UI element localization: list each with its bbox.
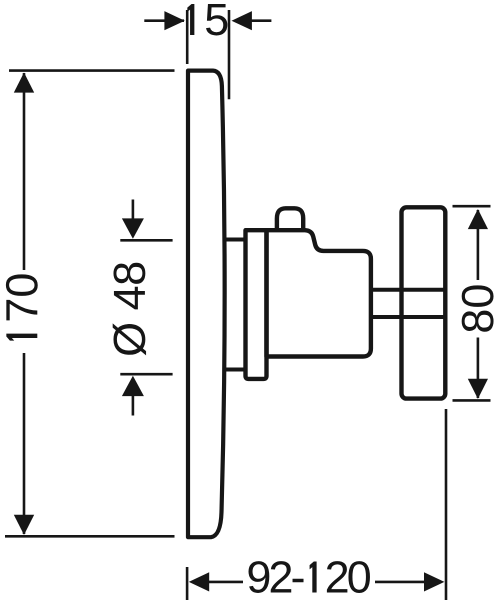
dim d48: upper arrow line [132, 200, 135, 222]
dim 170: top extension line [9, 69, 175, 72]
lower connector sleeve line [225, 368, 246, 372]
dim 170: bottom extension line [5, 535, 175, 538]
dim 170: upper dimension line [23, 73, 26, 270]
dim d48: upper tick [120, 239, 172, 242]
dim 170: lower dimension line [23, 353, 26, 534]
dim 15: left arrowhead [164, 11, 184, 30]
dim d48: lower tick [120, 373, 172, 376]
dim 92-120: left arrowhead [189, 572, 209, 591]
dim 80: top extension line [453, 205, 491, 208]
dim 170: down arrowhead [14, 515, 34, 535]
valve body [267, 230, 371, 356]
dim 15: right arrow line [251, 19, 271, 22]
dim 92-120: label 92-120 [249, 561, 370, 593]
dim 92-120: right extension line [445, 409, 448, 600]
dim 80: down arrowhead [468, 379, 488, 399]
dim 15: left arrow line [144, 19, 184, 22]
escutcheon plate (side view) [188, 71, 225, 538]
dim 170: label 170 [6, 274, 38, 340]
upper connector sleeve line [225, 238, 246, 242]
dim 92-120: right arrowhead [424, 572, 444, 591]
dim 92-120: left extension line [186, 567, 189, 600]
dim 80: upper dimension line [477, 210, 480, 280]
handle lower stem line [370, 315, 446, 319]
dim 80: up arrowhead [468, 209, 488, 229]
dim d48: lower arrow line [132, 395, 135, 416]
dim 92-120: left dimension line [208, 581, 243, 584]
dim 80: lower dimension line [477, 338, 480, 399]
dim 92-120: right dimension line [375, 581, 425, 584]
dim 15: label 15 [187, 4, 227, 35]
handle upper stem line [370, 288, 446, 292]
temperature stop button [277, 208, 303, 232]
dim d48: label diameter 48 [113, 263, 146, 356]
dim 15: right arrowhead [232, 11, 252, 30]
cross handle bar [402, 207, 446, 398]
dim 15: left extension line [186, 10, 189, 64]
dim 80: label 80 [462, 285, 494, 331]
dim 80: bottom extension line [453, 399, 491, 402]
flange strip [246, 230, 267, 379]
dim d48: lower arrowhead (up) [122, 376, 144, 396]
dim 15: right extension line [228, 10, 231, 99]
dim d48: upper arrowhead (down) [122, 218, 144, 238]
dim 170: up arrowhead [14, 73, 34, 93]
